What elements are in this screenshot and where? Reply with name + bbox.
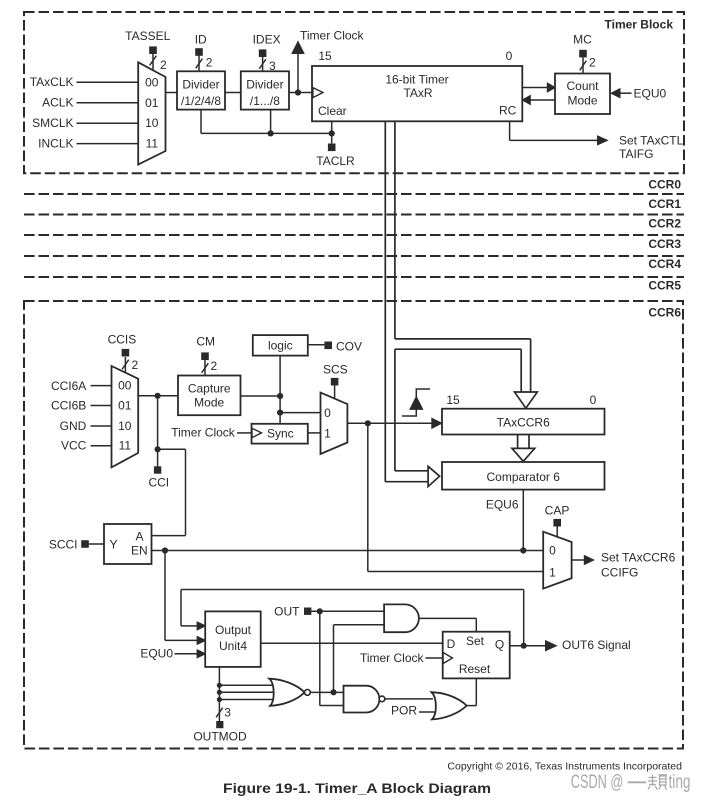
svg-text:CM: CM [196, 335, 215, 349]
svg-text:Copyright © 2016, Texas Instru: Copyright © 2016, Texas Instruments Inco… [447, 761, 682, 773]
svg-text:0: 0 [590, 393, 597, 407]
svg-text:1: 1 [324, 427, 331, 441]
svg-text:TAxCCR6: TAxCCR6 [497, 416, 550, 430]
svg-text:CSDN @: CSDN @ [571, 772, 624, 793]
svg-text:INCLK: INCLK [38, 137, 73, 151]
svg-text:CCIFG: CCIFG [601, 566, 638, 580]
svg-text:Output: Output [215, 623, 252, 637]
svg-text:Set TAxCTL: Set TAxCTL [619, 134, 684, 148]
svg-text:11: 11 [119, 439, 132, 453]
svg-text:Set: Set [466, 634, 485, 648]
svg-text:D: D [447, 637, 456, 651]
svg-text:RC: RC [499, 104, 517, 118]
svg-text:/1.../8: /1.../8 [250, 94, 280, 108]
svg-text:Timer Clock: Timer Clock [360, 651, 425, 665]
svg-text:GND: GND [60, 419, 87, 433]
svg-text:logic: logic [268, 339, 293, 353]
svg-text:CCR1: CCR1 [648, 197, 681, 211]
svg-text:Figure 19-1. Timer_A Block Dia: Figure 19-1. Timer_A Block Diagram [223, 780, 491, 796]
svg-text:Clear: Clear [318, 104, 347, 118]
svg-text:CCIS: CCIS [108, 333, 137, 347]
svg-text:SCS: SCS [323, 363, 348, 377]
svg-text:Reset: Reset [459, 662, 491, 676]
svg-text:Capture: Capture [188, 382, 231, 396]
svg-text:CCI6A: CCI6A [51, 379, 86, 393]
svg-text:15: 15 [446, 393, 460, 407]
svg-text:TACLR: TACLR [316, 154, 355, 168]
svg-text:10: 10 [118, 419, 132, 433]
svg-text:3: 3 [224, 706, 231, 720]
svg-text:SCCI: SCCI [49, 538, 78, 552]
svg-text:ting: ting [669, 772, 691, 793]
svg-text:EQU0: EQU0 [634, 87, 667, 101]
svg-text:0: 0 [549, 544, 556, 558]
svg-text:CAP: CAP [545, 504, 570, 518]
svg-text:CCR0: CCR0 [648, 178, 681, 192]
svg-text:CCR6: CCR6 [648, 306, 681, 320]
svg-text:0: 0 [324, 406, 331, 420]
svg-text:A: A [135, 530, 143, 544]
svg-text:1: 1 [549, 566, 556, 580]
svg-text:Comparator 6: Comparator 6 [487, 470, 561, 484]
svg-text:Set TAxCCR6: Set TAxCCR6 [601, 551, 676, 565]
svg-text:TAxCLK: TAxCLK [30, 75, 74, 89]
svg-text:MC: MC [573, 33, 592, 47]
svg-text:2: 2 [206, 56, 213, 70]
svg-text:00: 00 [118, 379, 132, 393]
svg-text:2: 2 [211, 359, 218, 373]
svg-text:Divider: Divider [182, 77, 219, 91]
svg-text:VCC: VCC [61, 439, 87, 453]
svg-text:Unit4: Unit4 [219, 639, 247, 653]
svg-text:Mode: Mode [567, 94, 597, 108]
svg-text:Count: Count [566, 79, 599, 93]
svg-text:11: 11 [146, 137, 159, 151]
svg-text:POR: POR [391, 704, 417, 718]
svg-text:OUTMOD: OUTMOD [193, 730, 247, 744]
svg-text:Timer Clock: Timer Clock [171, 426, 236, 440]
svg-text:CCI6B: CCI6B [51, 398, 86, 412]
svg-text:CCR4: CCR4 [648, 257, 681, 271]
svg-text:TAIFG: TAIFG [619, 147, 653, 161]
svg-text:01: 01 [118, 398, 132, 412]
svg-text:SMCLK: SMCLK [32, 116, 73, 130]
svg-text:Timer Block: Timer Block [605, 18, 674, 32]
svg-text:Mode: Mode [194, 396, 224, 410]
svg-text:16-bit Timer: 16-bit Timer [385, 73, 448, 87]
svg-text:CCI: CCI [148, 476, 169, 490]
svg-text:0: 0 [506, 49, 513, 63]
svg-text:TAxR: TAxR [403, 86, 432, 100]
svg-text:Sync: Sync [267, 427, 294, 441]
svg-text:/1/2/4/8: /1/2/4/8 [181, 94, 221, 108]
svg-text:ACLK: ACLK [42, 96, 73, 110]
svg-text:Timer Clock: Timer Clock [300, 29, 365, 43]
svg-text:Y: Y [109, 538, 117, 552]
svg-text:OUT6 Signal: OUT6 Signal [562, 638, 631, 652]
svg-text:CCR3: CCR3 [648, 237, 681, 251]
svg-text:EQU6: EQU6 [486, 498, 519, 512]
svg-text:Divider: Divider [246, 77, 283, 91]
svg-text:COV: COV [336, 340, 362, 354]
svg-text:IDEX: IDEX [253, 33, 281, 47]
svg-text:EQU0: EQU0 [140, 647, 173, 661]
svg-text:Q: Q [495, 638, 504, 652]
svg-text:2: 2 [589, 56, 596, 70]
svg-text:15: 15 [318, 49, 332, 63]
svg-text:ID: ID [195, 33, 207, 47]
svg-text:01: 01 [145, 96, 159, 110]
svg-text:00: 00 [145, 75, 159, 89]
svg-text:2: 2 [132, 358, 139, 372]
svg-text:TASSEL: TASSEL [125, 29, 170, 43]
svg-text:2: 2 [160, 58, 167, 72]
svg-text:CCR5: CCR5 [648, 279, 681, 293]
svg-text:EN: EN [131, 544, 148, 558]
svg-text:CCR2: CCR2 [648, 217, 681, 231]
svg-text:3: 3 [269, 59, 276, 73]
svg-text:10: 10 [145, 116, 159, 130]
svg-text:OUT: OUT [274, 605, 300, 619]
